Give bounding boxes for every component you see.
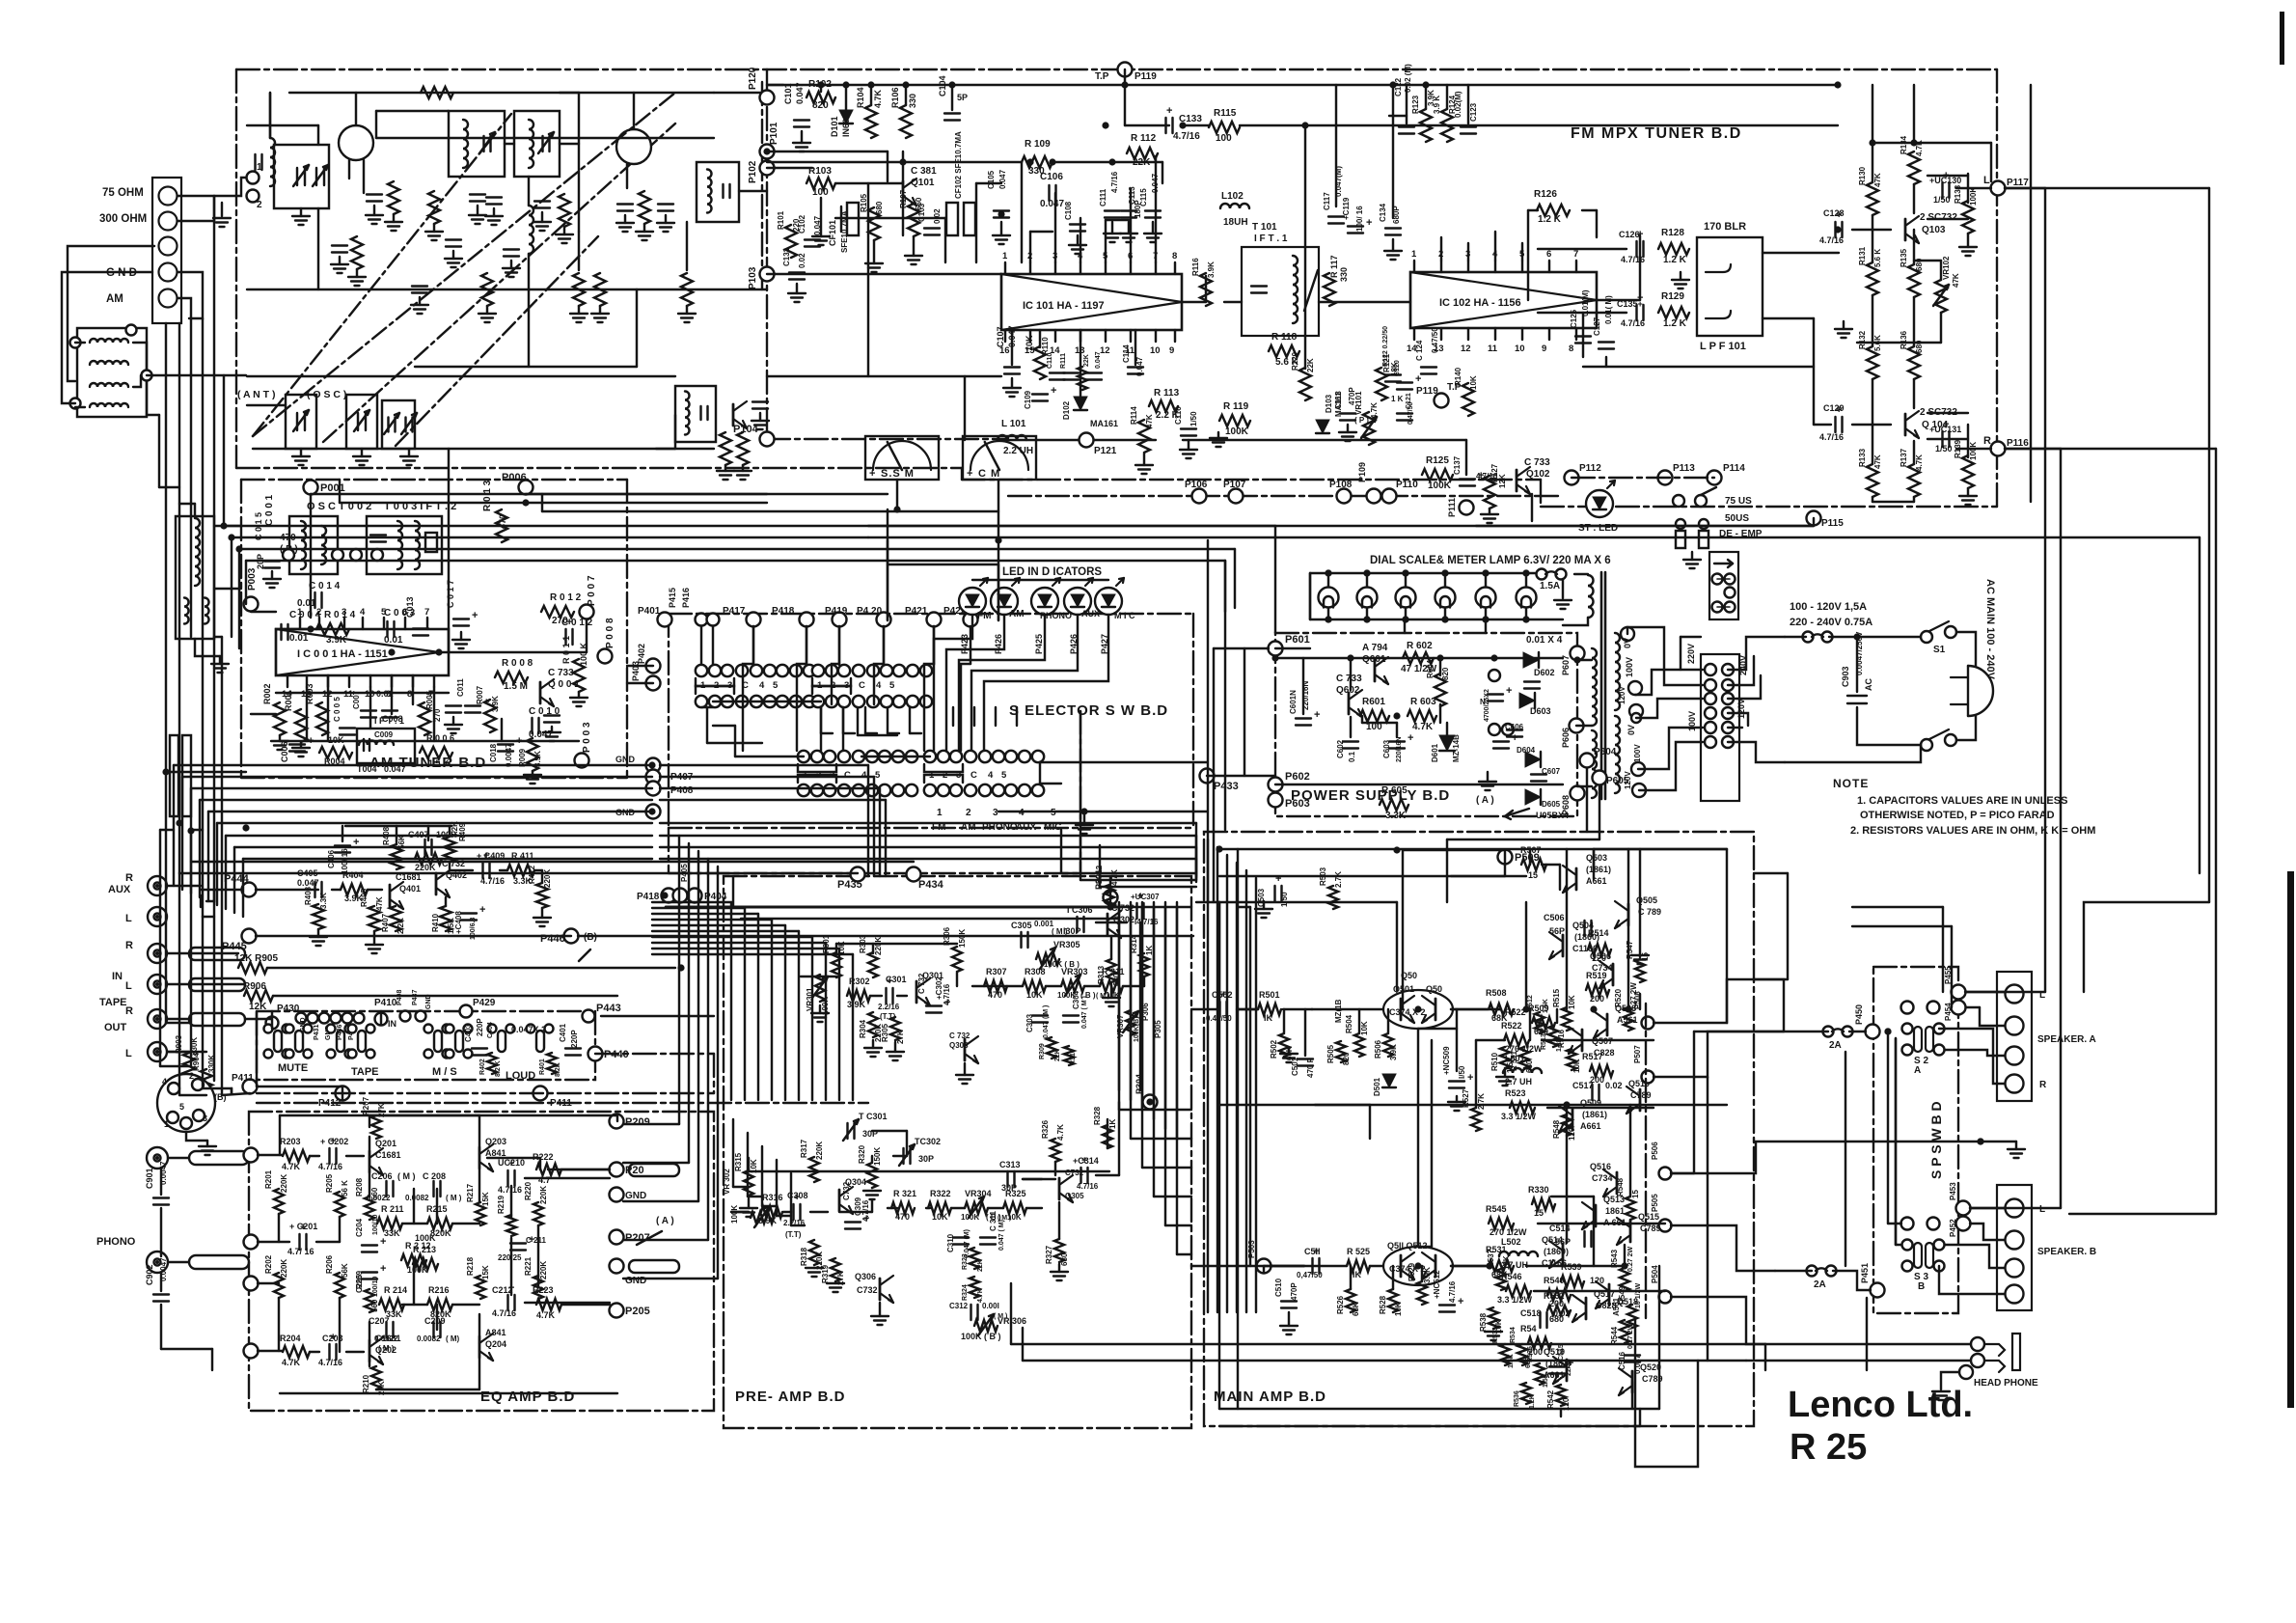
svg-text:150K: 150K: [958, 929, 967, 948]
svg-text:L501: L501: [1505, 1054, 1525, 1063]
svg-text:C102: C102: [798, 214, 806, 234]
svg-text:IN: IN: [388, 1019, 396, 1029]
svg-text:C304: C304: [1072, 990, 1080, 1009]
svg-text:P121: P121: [1094, 446, 1117, 456]
svg-text:1.2 K: 1.2 K: [1663, 318, 1687, 329]
front end extra rail2: [376, 137, 714, 139]
R403 3.3K: [313, 904, 324, 929]
svg-text:C506: C506: [1544, 913, 1565, 922]
Q501 dual C374: [1383, 990, 1453, 1029]
bundle from selector bottom to preamp: [730, 902, 732, 1100]
C509 1/50: [1449, 1080, 1464, 1082]
shield capsule in L: [189, 978, 245, 991]
svg-text:2.7 UH: 2.7 UH: [1501, 1260, 1528, 1270]
filter caps 4700: [1489, 670, 1500, 681]
speaker A wires: [1966, 991, 2005, 993]
R305 27K: [890, 1017, 900, 1040]
junction dots: [817, 81, 824, 88]
svg-text:C732: C732: [842, 1181, 851, 1200]
svg-text:56K: 56K: [341, 1263, 349, 1278]
svg-text:C108: C108: [1064, 201, 1073, 220]
svg-text:1/50: 1/50: [1933, 195, 1951, 205]
svg-text:+: +: [1366, 217, 1372, 229]
svg-text:R401: R401: [539, 1059, 546, 1075]
svg-text:R120: R120: [1291, 351, 1299, 371]
Q301 C732: [916, 981, 918, 1003]
svg-text:13: 13: [1434, 344, 1444, 354]
P101 pin: [760, 145, 775, 159]
svg-text:C120: C120: [1394, 360, 1401, 376]
P433 pin: [1200, 769, 1215, 784]
svg-text:(1861): (1861): [1582, 1110, 1607, 1119]
svg-text:R549: R549: [1618, 1285, 1626, 1305]
P209 pin: [610, 1114, 624, 1129]
svg-text:M I C: M I C: [1114, 611, 1135, 620]
front end right resistors: [681, 273, 693, 306]
pin 2 circle: [247, 190, 260, 203]
svg-text:P419: P419: [825, 606, 848, 617]
wire tape in: [168, 952, 238, 954]
svg-text:R106: R106: [890, 87, 900, 108]
Q518 A561: [1608, 1284, 1611, 1306]
svg-text:220K: 220K: [543, 869, 552, 888]
C116 1/50: [1181, 427, 1196, 429]
wire fuse B: [1775, 1270, 1812, 1272]
svg-text:4.7K: 4.7K: [1412, 722, 1434, 732]
R513 1.2K: [1548, 1026, 1558, 1047]
R116 3.9K: [1200, 273, 1212, 306]
svg-text:R 109: R 109: [1025, 139, 1051, 150]
svg-text:30P: 30P: [918, 1154, 934, 1164]
svg-text:2: 2: [257, 200, 262, 210]
svg-text:4.7K: 4.7K: [1915, 454, 1924, 471]
svg-text:R217: R217: [466, 1183, 475, 1202]
trimmer caps: [387, 418, 389, 432]
C130 1/50: [1941, 182, 1943, 198]
svg-text:7: 7: [1573, 249, 1578, 260]
D102 MA161 diode: [1074, 397, 1087, 410]
DIN connector: [157, 1074, 215, 1132]
headphone gnd: [1941, 1372, 1959, 1389]
svg-text:PRE- AMP B.D: PRE- AMP B.D: [735, 1389, 846, 1405]
svg-text:R 0 1 3: R 0 1 3: [482, 480, 493, 511]
R547 15: [1635, 959, 1645, 982]
T.P P119 top pin: [1118, 63, 1133, 77]
svg-text:2. RESISTORS VALUES ARE IN: 2. RESISTORS VALUES ARE IN OHM, K K = OH…: [1850, 825, 2095, 837]
svg-text:ST . LED: ST . LED: [1578, 523, 1618, 534]
secondary upper coil: [1615, 633, 1620, 710]
Q517 C828: [1585, 1298, 1588, 1319]
svg-text:R 119: R 119: [1223, 401, 1249, 412]
svg-text:120V: 120V: [1736, 699, 1746, 719]
svg-text:P408: P408: [670, 785, 694, 796]
plug indicator box: [1709, 552, 1738, 619]
svg-text:R501: R501: [1259, 990, 1280, 1000]
svg-text:+: +: [1166, 105, 1172, 117]
P301 pin: [1104, 891, 1118, 905]
C133 4.7/16: [1164, 118, 1166, 133]
svg-text:P006: P006: [502, 472, 527, 483]
selector pins left: [1705, 664, 1716, 675]
IC102 pins bottom: [1413, 328, 1415, 340]
eq left pins: [244, 1148, 259, 1163]
svg-text:AM: AM: [106, 293, 123, 305]
wire aux to p444: [168, 885, 201, 887]
C115 0.047: [1145, 209, 1161, 211]
svg-text:C109: C109: [1024, 390, 1032, 409]
svg-text:1. CAPACITORS VALUES ARE I: 1. CAPACITORS VALUES ARE IN UNLESS: [1857, 795, 2067, 807]
svg-text:R317: R317: [800, 1139, 808, 1158]
svg-text:M / S: M / S: [432, 1066, 457, 1078]
front end caps under IFT: [470, 193, 485, 195]
svg-text:Q101: Q101: [911, 178, 935, 188]
R217 15K: [476, 1202, 485, 1225]
AM board extra caps: [446, 704, 461, 706]
selector groups interconnects: [713, 701, 821, 702]
svg-text:R510: R510: [1490, 1052, 1499, 1071]
C103 0.02: [924, 227, 940, 229]
svg-text:C M: C M: [978, 468, 1000, 480]
R515 10K: [1562, 1007, 1572, 1031]
preamp left edge verticals into tone: [732, 1119, 734, 1187]
svg-text:P207: P207: [625, 1232, 650, 1244]
R409 8.2K: [444, 837, 455, 862]
svg-text:VR 302: VR 302: [723, 1169, 731, 1195]
svg-text:C518: C518: [1520, 1308, 1542, 1318]
preamp lower wires: [731, 1211, 749, 1213]
wires main amp outputs to SP: [1654, 979, 1784, 1032]
C128 4.7/16: [1834, 222, 1836, 237]
wire fuse A: [1784, 1031, 1828, 1032]
svg-text:2 SC732: 2 SC732: [1920, 212, 1957, 223]
svg-text:8.2K: 8.2K: [555, 1062, 561, 1077]
svg-text:R 0 0 8: R 0 0 8: [502, 658, 533, 669]
svg-text:AC: AC: [1864, 678, 1873, 691]
svg-text:0.047 ( M): 0.047 ( M): [998, 1220, 1005, 1251]
transistor Q001 am: [539, 682, 542, 703]
svg-text:VR102: VR102: [1942, 256, 1951, 280]
svg-text:C601N: C601N: [1289, 690, 1298, 714]
svg-text:4.7/16: 4.7/16: [1621, 318, 1645, 328]
R315 10K: [744, 1170, 753, 1196]
R005 270: [419, 702, 430, 735]
svg-text:I30P: I30P: [1063, 926, 1081, 936]
svg-text:R522: R522: [1501, 1021, 1522, 1031]
C512 4.7/16: [1439, 1304, 1455, 1306]
C015 cap: [264, 560, 280, 562]
svg-text:0.047 ( M ): 0.047 ( M ): [1081, 996, 1088, 1029]
svg-text:22K: 22K: [1083, 354, 1090, 367]
svg-text:47K: 47K: [1145, 414, 1154, 428]
R512 1.5K: [1535, 1012, 1544, 1033]
svg-text:P453: P453: [1949, 1182, 1957, 1200]
R140 10K: [1462, 383, 1474, 416]
front end ladder extras: [446, 238, 461, 240]
headphone long wires from main: [1707, 1077, 1708, 1361]
R905 12K: [238, 962, 267, 974]
C518 0.02: [1539, 1312, 1541, 1328]
IC101 pins bottom: [1004, 330, 1006, 342]
svg-text:P430: P430: [277, 1004, 300, 1014]
Q505 C789: [1627, 904, 1630, 925]
S3 contacts: [1914, 1243, 1922, 1268]
C409 4.7/16: [481, 863, 483, 878]
selector pins right: [1722, 664, 1734, 675]
svg-text:R111: R111: [1060, 353, 1067, 369]
svg-text:C 732: C 732: [442, 859, 465, 868]
svg-text:+: +: [380, 1236, 386, 1248]
R131 5.6K: [1867, 262, 1878, 295]
R101 220: [785, 225, 797, 258]
svg-text:100K ( B ): 100K ( B ): [1044, 960, 1080, 969]
svg-text:C1681: C1681: [375, 1334, 401, 1343]
svg-text:+NC509: +NC509: [1442, 1046, 1451, 1075]
P455 pin: [1952, 985, 1966, 1000]
C902 0.0047: [153, 1293, 169, 1295]
svg-text:P119: P119: [1134, 71, 1157, 82]
AM bar antenna box: [77, 328, 147, 417]
svg-text:R219: R219: [497, 1195, 506, 1214]
Q201 C1681: [369, 1151, 371, 1172]
svg-text:2.2K: 2.2K: [396, 918, 405, 934]
C129 4.7/16: [1834, 417, 1836, 432]
ground under T001: [219, 656, 221, 664]
R219: [506, 1215, 516, 1236]
svg-text:R130: R130: [1858, 166, 1867, 185]
VR301 100K: [815, 975, 825, 1002]
svg-text:R515: R515: [1552, 988, 1561, 1007]
svg-text:R208: R208: [355, 1177, 364, 1197]
pre-amp board outline: [724, 876, 1191, 1428]
AM board bottom bus: [280, 740, 579, 742]
svg-text:C 0 1 7: C 0 1 7: [446, 580, 455, 608]
svg-text:6: 6: [402, 607, 407, 618]
svg-text:GND: GND: [615, 755, 636, 764]
aux stage wires: [256, 889, 318, 891]
svg-text:3.3 1/2W: 3.3 1/2W: [1501, 1112, 1537, 1121]
svg-text:P431: P431: [314, 1025, 320, 1040]
svg-text:9: 9: [1542, 344, 1546, 354]
resistor front end top: [421, 87, 453, 98]
svg-text:R122 0.22/50: R122 0.22/50: [1382, 326, 1389, 367]
R114 47K: [1138, 420, 1150, 453]
C102 0.047: [805, 238, 820, 240]
svg-text:2.2/16: 2.2/16: [878, 1003, 900, 1011]
headphone jack circles: [1971, 1337, 1984, 1351]
svg-text:C606: C606: [1505, 723, 1524, 731]
wire front-end out to P101: [714, 92, 767, 94]
svg-text:R132: R132: [1858, 330, 1867, 349]
shield capsule out: [189, 1013, 245, 1026]
antenna terminal circle: [159, 263, 178, 282]
svg-text:C404: C404: [487, 1022, 494, 1038]
svg-text:C828: C828: [1594, 1048, 1615, 1058]
wire top right bus pair: [868, 525, 1814, 527]
svg-text:C789: C789: [1640, 1224, 1661, 1233]
bar antenna terminal circles: [70, 338, 81, 348]
svg-text:D101: D101: [830, 116, 839, 137]
svg-text:I F T . 1: I F T . 1: [374, 716, 404, 726]
svg-text:R308: R308: [1025, 967, 1046, 977]
svg-text:R007: R007: [476, 685, 484, 704]
svg-text:P605: P605: [1606, 776, 1629, 786]
aux stage top rail: [345, 825, 451, 827]
R529 3.9K: [1417, 1281, 1427, 1305]
svg-text:SPEAKER. A: SPEAKER. A: [2037, 1034, 2096, 1045]
svg-text:D604: D604: [1517, 746, 1536, 755]
svg-text:(B): (B): [584, 932, 597, 943]
svg-text:100/10: 100/10: [372, 1214, 379, 1235]
R202 220K: [274, 1273, 284, 1298]
svg-text:P110: P110: [1396, 480, 1418, 490]
bar antenna coil 3: [90, 383, 128, 387]
tube V1: [339, 125, 373, 160]
switch contacts mute: [274, 1031, 282, 1052]
svg-text:+: +: [1314, 709, 1320, 721]
meter CM: [963, 436, 1036, 480]
IC001 body: [276, 629, 449, 675]
shield capsule eq out2: [629, 1164, 679, 1176]
OUT L jack: [148, 1042, 167, 1061]
C210 4.7/16: [506, 1170, 508, 1186]
P435 pin: [851, 867, 865, 882]
tube V2: [616, 129, 651, 164]
svg-text:C 733: C 733: [1336, 674, 1362, 684]
svg-text:R522: R522: [1505, 1007, 1526, 1017]
C312 0.001: [970, 1305, 971, 1320]
P116 pin: [1991, 442, 2006, 456]
bottom rail front end: [253, 448, 714, 450]
svg-text:1.2 K: 1.2 K: [1538, 214, 1562, 225]
svg-text:R502: R502: [1270, 1039, 1278, 1059]
Q302 C732: [1107, 914, 1109, 935]
svg-text:TAPE: TAPE: [99, 997, 127, 1008]
svg-text:4: 4: [861, 770, 867, 781]
svg-text:C129: C129: [1823, 403, 1845, 413]
switch group 1: [696, 665, 707, 676]
svg-text:3.3K: 3.3K: [1385, 811, 1407, 821]
svg-text:R221: R221: [524, 1256, 533, 1276]
middle coupling coil: [529, 206, 533, 254]
Q503 A661: [1575, 868, 1578, 890]
svg-text:GND: GND: [625, 1276, 646, 1286]
R504 10K: [1354, 1033, 1364, 1057]
antenna input varcap box: [274, 145, 329, 208]
svg-text:200: 200: [1590, 994, 1604, 1004]
svg-text:12: 12: [1461, 344, 1471, 354]
svg-text:R123: R123: [1411, 95, 1420, 114]
P452 pin: [1956, 1217, 1971, 1231]
AC fuse: [1803, 632, 1814, 643]
C408 100/6.3: [461, 912, 477, 914]
svg-text:FM: FM: [977, 611, 991, 621]
selector wires: [1635, 670, 1703, 695]
svg-text:4.7/16: 4.7/16: [318, 1162, 342, 1171]
wire 300ohm: [178, 196, 214, 221]
C110 C112 cluster: [1050, 371, 1065, 373]
left wire bundle verticals: [165, 323, 167, 772]
svg-text:R 211: R 211: [381, 1204, 404, 1214]
svg-text:R129: R129: [1661, 291, 1684, 302]
svg-text:3: 3: [993, 808, 998, 818]
T101 IFT1 box: [1242, 247, 1319, 336]
LED MIC: [1095, 588, 1122, 615]
Q520 C789: [1631, 1371, 1634, 1392]
preamp top wires: [801, 976, 836, 977]
svg-text:470: 470: [895, 1212, 910, 1222]
svg-text:P403: P403: [631, 661, 641, 681]
svg-text:R: R: [125, 940, 133, 951]
C903 cap: [1847, 695, 1867, 697]
svg-text:R: R: [125, 872, 133, 884]
R314 1K: [1139, 953, 1149, 977]
svg-text:I/50: I/50: [1458, 1065, 1466, 1079]
transformer primary winding lower: [1592, 730, 1597, 798]
svg-text:C305: C305: [1011, 921, 1032, 930]
P440 pin: [588, 1047, 603, 1061]
svg-text:18UH: 18UH: [1223, 217, 1248, 228]
svg-text:IK: IK: [1264, 1013, 1273, 1023]
wire p446: [256, 935, 571, 937]
wires cluster to bus: [1406, 85, 1408, 124]
P503 pin: [1257, 1259, 1271, 1274]
grounds under V1: [373, 206, 375, 215]
R906 12K: [244, 990, 273, 1002]
osc transistor Q001: [732, 404, 735, 426]
svg-text:1: 1: [297, 607, 303, 618]
C309 4.7/16: [845, 1221, 861, 1223]
svg-text:IN60: IN60: [841, 119, 851, 137]
svg-text:P602: P602: [1285, 771, 1310, 783]
svg-text:+: +: [479, 904, 485, 916]
svg-text:R538: R538: [1479, 1312, 1488, 1332]
R209 560: [365, 1289, 374, 1312]
svg-text:R544: R544: [1610, 1326, 1619, 1345]
switch contacts tape: [337, 1031, 344, 1052]
svg-text:270 1/2W: 270 1/2W: [1505, 1044, 1543, 1054]
svg-text:(1860): (1860): [1544, 1247, 1569, 1256]
svg-text:C501: C501: [1291, 1057, 1299, 1076]
P605 pin: [1593, 771, 1607, 785]
T003 coils: [397, 521, 402, 569]
svg-text:P4 20: P4 20: [857, 606, 883, 617]
svg-text:R904: R904: [192, 1052, 201, 1071]
svg-text:+: +: [472, 610, 478, 621]
svg-text:+UC131: +UC131: [1929, 425, 1961, 434]
svg-text:0.47/50: 0.47/50: [1408, 402, 1414, 425]
svg-text:1861: 1861: [1605, 1206, 1625, 1216]
selector SW board outline: [669, 613, 1193, 615]
svg-text:R140: R140: [1454, 367, 1462, 386]
svg-text:P418: P418: [637, 892, 660, 902]
svg-text:4.7/16: 4.7/16: [1621, 255, 1645, 264]
svg-text:C789: C789: [1630, 1090, 1652, 1100]
R110 10K: [1034, 346, 1046, 379]
tank under tube V2: [573, 273, 585, 306]
svg-text:C207: C207: [369, 1316, 390, 1326]
svg-text:100: 100: [1216, 133, 1232, 144]
R407 2.2K: [390, 906, 401, 931]
wire bar to left bundle: [147, 374, 246, 376]
svg-text:C 733: C 733: [548, 668, 574, 678]
P445 pin: [242, 929, 257, 944]
shield capsule eq out: [629, 1260, 679, 1273]
svg-text:120: 120: [1568, 1127, 1576, 1141]
switch contacts ms: [434, 1031, 442, 1052]
svg-text:C734: C734: [1592, 963, 1613, 973]
tank caps V2: [617, 203, 633, 205]
svg-text:15K: 15K: [481, 1265, 490, 1279]
